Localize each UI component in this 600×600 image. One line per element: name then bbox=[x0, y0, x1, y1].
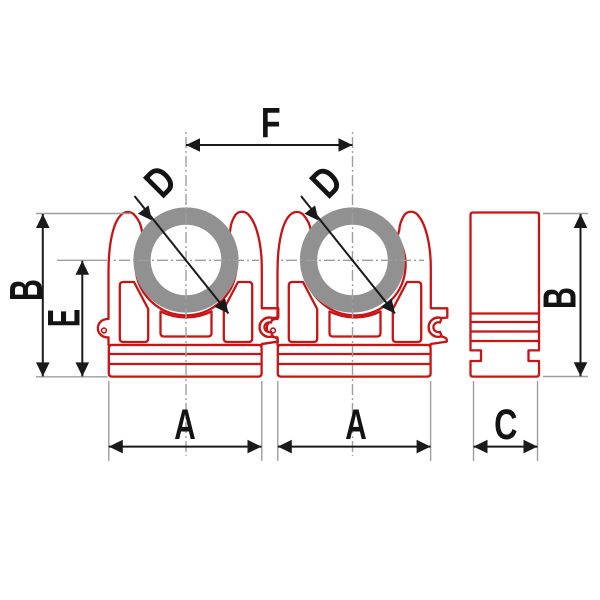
svg-text:E: E bbox=[38, 309, 89, 327]
svg-text:B: B bbox=[2, 279, 53, 301]
svg-text:B: B bbox=[535, 287, 586, 309]
svg-text:A: A bbox=[174, 401, 195, 449]
svg-text:A: A bbox=[345, 401, 366, 449]
svg-text:D: D bbox=[136, 157, 186, 207]
svg-text:C: C bbox=[494, 401, 517, 448]
svg-text:F: F bbox=[261, 99, 281, 146]
svg-text:D: D bbox=[302, 158, 352, 208]
